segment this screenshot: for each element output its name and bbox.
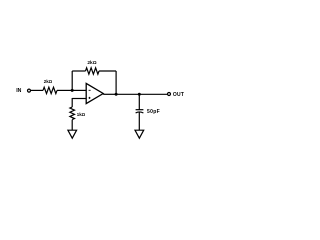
wire feedback right vertical down to output node [115, 71, 117, 94]
wire op-amp non-inverting input horizontal [72, 98, 86, 100]
op-amp U1 triangle [86, 83, 103, 103]
svg-text:50pF: 50pF [147, 109, 160, 115]
svg-text:IN: IN [16, 88, 21, 94]
resistor R_f 2k ohm (feedback) [86, 68, 100, 74]
input terminal circle [28, 89, 31, 92]
junction dot at output node B [115, 93, 118, 96]
wire node C down to capacitor C1 [138, 94, 140, 110]
wire node C to OUT terminal [139, 93, 167, 95]
wire IN terminal to R_in [31, 89, 43, 91]
wire node B to node C [116, 93, 139, 95]
wire R_in to node A [57, 89, 72, 91]
wire R1 to ground [71, 120, 73, 131]
wire feedback top right segment [99, 70, 116, 72]
svg-text:OUT: OUT [173, 92, 184, 98]
wire capacitor C1 to ground [138, 112, 140, 130]
svg-text:1kΩ: 1kΩ [77, 112, 86, 117]
output terminal circle [168, 93, 171, 96]
capacitor C1 50pF [136, 110, 144, 113]
ground symbol below C1 [135, 130, 144, 138]
wire node A to op-amp inverting input [72, 89, 86, 91]
wire feedback top left segment [72, 70, 85, 72]
node A junction dot (inverting input node) [71, 89, 74, 92]
junction dot at capacitor node C [138, 93, 141, 96]
wire feedback left vertical [71, 71, 73, 90]
ground symbol below R1 [68, 130, 77, 138]
resistor R_in 2k ohm (series input) [43, 87, 57, 93]
wire non-inverting input down to R1 [71, 98, 73, 107]
wire op-amp output to node B [103, 93, 116, 95]
svg-text:2kΩ: 2kΩ [87, 60, 96, 66]
svg-text:2kΩ: 2kΩ [44, 79, 53, 84]
resistor R1 1k ohm (to ground) [70, 107, 75, 120]
